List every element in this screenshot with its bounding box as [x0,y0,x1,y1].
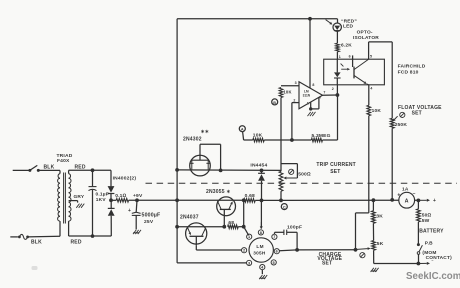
svg-text:+: + [433,198,436,204]
label 5.3MEG [312,133,331,139]
label RED top [75,165,86,171]
pin 3 label [295,81,297,85]
svg-text:311N: 311N [303,94,311,98]
wire pin1 to ground [310,102,312,109]
label 10K (emitter) [372,108,382,114]
svg-text:SET: SET [412,110,422,116]
svg-text:P.B: P.B [425,240,433,246]
svg-text:1KV: 1KV [96,197,107,203]
svg-text:+9V: +9V [133,193,143,199]
wire current limit to LM305 pin1 [244,227,249,236]
ammeter M1 1A [397,187,415,209]
node top rail to comparator supply [308,17,312,21]
ground 5000uF [133,230,141,234]
wire secondary center tap [69,201,78,203]
IC U3 LM305H [249,238,273,262]
U3 pin 8 [258,230,263,235]
op-amp U1 LM311 [299,82,323,109]
svg-text:1A: 1A [402,187,409,193]
node +9V riser [175,198,179,202]
wire V+ riser left [176,19,178,263]
chassis separator dashed line [146,182,458,184]
transistor Q3 2N4037 [186,223,207,246]
wire AC line top [13,169,30,171]
svg-text:2N4302: 2N4302 [183,137,202,143]
label 10K (B) [283,90,291,95]
svg-text:1: 1 [339,55,341,59]
wire 6.2K to opto pin1 [336,52,338,59]
label 3K [376,214,383,220]
ground center tap [76,204,84,208]
label 0.1ohm [115,193,126,199]
resistor 10K (emitter) [367,105,371,115]
svg-text:68: 68 [228,220,234,226]
node 100pF junction [295,248,299,252]
label 500 ohm [298,171,311,177]
wire rail to Q3 [177,226,224,228]
node JFET line left [175,168,179,172]
pin 2 label [293,98,295,102]
svg-text:2: 2 [332,87,334,91]
diode D3 IN4454 [258,170,265,200]
wire diode chain top [110,170,112,186]
transistor Q1 2N4302 (FET current source) [190,144,221,176]
opto light arrow [341,64,350,71]
wire node A line [244,139,253,141]
wire AC line bottom [10,236,18,238]
wire opto LED cathode to comparator output [336,85,338,95]
svg-text:IN4002(2): IN4002(2) [113,176,137,182]
wire pin2 input [292,103,299,140]
wire 0.68 to node C [255,199,281,201]
LED red indicator [326,20,342,32]
resistor 10K (A) [253,138,264,142]
label P.B. [425,240,433,246]
capacitor 0.1uF 1KV [89,170,97,236]
svg-text:SET: SET [322,260,332,266]
svg-text:5K: 5K [377,241,384,247]
svg-text:6.2K: 6.2K [341,42,352,48]
capacitor 100pF [274,230,297,250]
svg-text:SeekIC.com: SeekIC.com [406,271,460,282]
label 2N4302 [183,137,202,143]
node charge wiper junction [354,248,358,252]
wire +9V rail [129,199,244,201]
wiper arrow 5K [357,247,371,250]
svg-text:2N3055 ∗: 2N3055 ∗ [206,189,231,195]
svg-text:GRY: GRY [74,194,85,200]
label RED bottom [71,240,82,246]
label 50ohm 5W [422,213,432,224]
svg-text:F40X: F40X [57,158,70,164]
svg-text:1: 1 [248,235,250,239]
fuse F1 [18,234,60,239]
capacitor 5000uF 25V [128,200,141,229]
svg-text:ISOLATOR: ISOLATOR [353,35,379,41]
wire +9V rail left [111,199,116,201]
svg-text:6: 6 [276,250,278,254]
label FLOAT VOLTAGE SET [398,105,442,117]
wire D2 anode to RED bottom [110,216,112,236]
U3 pin 6 [274,249,279,254]
ground U3 pin4 [259,270,267,279]
switch S1 (line switch) [28,165,60,172]
wire output pin7 [323,94,338,96]
wire 10K down to feedback line [280,98,282,141]
svg-text:B: B [273,101,276,105]
wire 10K to 5.3MEG [264,139,311,141]
node 250K to rail [390,198,394,202]
wire top rail [177,18,337,20]
U3 pin 4 [260,265,265,270]
node B [272,99,278,105]
node Q3 emitter rail [175,225,179,229]
svg-text:FCD 810: FCD 810 [398,69,419,75]
svg-text:LM: LM [256,244,264,249]
resistor 0.1 ohm [116,199,128,203]
label TRIP CURRENT SET [316,162,356,175]
svg-text:LED: LED [343,24,354,30]
wire comparator V+ pin8 [309,19,311,89]
label IN4002(2) [113,176,137,182]
output terminal + [418,198,436,204]
wire output rail right [281,199,399,201]
svg-text:100pF: 100pF [287,225,302,231]
wire JFET source line [177,169,281,172]
node Q2 base [222,225,226,229]
U3 pin 7 [272,234,277,239]
pin 4 label [319,96,321,100]
wire feedback line down to pot [280,140,282,171]
label IN4454 [250,163,267,169]
svg-text:4: 4 [370,87,372,91]
diode D1 IN4002 [108,186,115,193]
trim symbol 250K [400,112,405,117]
resistor 3K [372,200,376,223]
U3 pin 1 [247,234,252,239]
label TRIAD F40X [57,153,73,164]
node A [239,126,245,140]
node rectifier output [109,198,113,202]
node comparator output [336,93,340,97]
svg-text:A: A [241,128,244,132]
opto pin labels [332,54,373,91]
wire opto collector [369,42,393,118]
transformer T1 primary winding [58,170,60,236]
svg-text:2: 2 [293,98,295,102]
svg-text:5: 5 [370,54,372,58]
wire V+ riser to LM305 pin3 [177,262,247,264]
svg-text:3: 3 [248,261,250,265]
svg-text:A: A [405,198,409,204]
label RED LED [341,18,357,29]
opto phototransistor [353,55,369,84]
label OPTO-ISOLATOR [353,30,379,41]
node 3K top [372,198,376,202]
trim symbol 500 ohm [289,169,294,174]
output terminal - [418,259,433,265]
node Q2 emitter [242,198,246,202]
U3 pin 2 [242,248,247,253]
svg-text:0.1Ω: 0.1Ω [115,193,126,199]
node IN4454 anode [260,199,264,203]
node opamp ground [309,107,312,110]
wire pin4 to ground [311,97,319,109]
wire 10K emitter down [356,116,369,250]
U3 pin 5 [271,260,276,265]
svg-text:RED: RED [71,240,82,246]
label ** [201,129,209,135]
svg-text:5.3MEG: 5.3MEG [312,133,331,139]
transformer T1 secondary winding [69,170,71,236]
svg-text:8: 8 [260,231,262,235]
label BATTERY [419,228,444,234]
svg-text:250K: 250K [395,122,408,128]
node 68/current-limit [242,225,246,229]
svg-text:0.68: 0.68 [245,193,255,199]
scan artifact [32,266,38,270]
resistor 0.68 ohm [244,199,256,203]
wire top rail corner to LED [337,19,339,23]
label GRY center tap [74,194,85,200]
svg-text:1: 1 [307,101,309,105]
svg-text:+: + [397,193,400,199]
label 2N4037 [180,215,199,221]
svg-text:10K: 10K [253,132,263,138]
opto-isolator U2 box [324,59,385,85]
svg-text:⁻: ⁻ [431,259,433,264]
label 5K [377,241,384,247]
wire D1 cathode to +9V node [110,194,112,201]
label 2N3055 * [206,189,231,195]
wire 3K to 5K [372,223,374,240]
svg-text:5: 5 [273,261,275,265]
label 6.2K [341,42,352,48]
wire RED bottom to rectifier [69,234,112,238]
svg-text:2N4037: 2N4037 [180,215,199,221]
svg-text:+: + [128,208,131,214]
svg-text:“RED”: “RED” [341,18,357,24]
label FAIRCHILD FCD 810 [398,64,426,76]
svg-text:8: 8 [312,83,314,87]
label MOM CONTACT [422,250,452,261]
svg-text:FAIRCHILD: FAIRCHILD [398,64,426,70]
wire LED to 6.2K [336,31,338,43]
label CHARGE VOLTAGE SET [317,252,342,267]
svg-text:∗∗: ∗∗ [201,129,209,135]
svg-text:3K: 3K [376,214,383,220]
label 0.1uF 1KV [96,192,109,203]
svg-text:10K: 10K [372,108,382,114]
watermark SeekIC.com [406,271,460,282]
transistor Q2 2N3055 [217,197,236,227]
label 10K (A) [253,132,263,138]
node battery negative [417,262,421,266]
node JFET drain [219,169,223,173]
potentiometer 250K [390,116,397,200]
potentiometer 500 ohm [279,164,297,201]
wire opto emitter down [368,85,370,106]
label +9V [133,193,143,199]
trim symbol 5K [360,253,365,258]
svg-text:50Ω: 50Ω [422,213,432,219]
node inverting input feedback [290,138,294,142]
svg-text:305H: 305H [253,251,266,256]
label 5000uF 25V [142,213,161,226]
svg-text:OPTO-: OPTO- [357,30,373,36]
svg-text:5W: 5W [422,218,430,224]
svg-text:SET: SET [330,169,340,175]
U3 pin 3 [247,260,252,265]
resistor 5.3MEG [311,138,322,142]
svg-text:7: 7 [273,235,275,239]
node 5000uF [135,198,139,202]
node cap top [91,168,95,172]
ground 5K bottom [371,268,379,272]
svg-text:7: 7 [323,90,325,94]
svg-text:−: − [413,191,416,197]
label 68 [228,220,234,226]
resistor 50 ohm 5W [417,200,421,222]
svg-text:3: 3 [295,81,297,85]
wire 5.3MEG to output [323,95,338,140]
pin 7 label [323,90,325,94]
svg-text:5000µF: 5000µF [142,213,161,219]
diode D2 IN4002 [108,200,115,216]
wire ammeter out [415,199,419,201]
wire 68 to emitter node [238,200,244,226]
svg-text:6: 6 [349,54,351,58]
svg-text:IN4454: IN4454 [250,163,267,169]
wire IN4454 node down to pin8 [260,200,263,229]
svg-text:BATTERY: BATTERY [419,228,444,234]
pin 8 label [312,83,314,87]
svg-text:TRIP CURRENT: TRIP CURRENT [316,162,356,168]
wire pin6 sense line [280,250,356,251]
resistor 6.2K [336,43,340,52]
wire bottom output [374,263,419,265]
ground op-amp [308,112,316,116]
svg-text:C: C [283,206,286,210]
node 50 ohm top [417,199,421,203]
svg-text:0.1µF: 0.1µF [96,192,109,198]
node IN4454 cathode [260,169,264,173]
wire Q3 base to LM305 pin2 [196,246,241,250]
push button P.B. [417,243,423,263]
svg-text:25V: 25V [144,219,154,225]
node C [279,199,287,210]
wire 50 ohm to switch [417,222,419,244]
label 100pF [287,225,302,231]
svg-text:BLK: BLK [44,164,55,170]
pin 1 label [307,101,309,105]
label BLK top [44,164,55,170]
svg-text:500Ω: 500Ω [298,171,311,177]
opto LED [334,59,341,85]
svg-text:10K: 10K [283,90,291,95]
label BLK bottom [31,240,42,246]
wire RED top to rectifier [69,169,111,171]
svg-text:2: 2 [243,249,245,253]
svg-text:CONTACT): CONTACT) [426,255,452,261]
label 250K [395,122,408,128]
resistor 68 ohm [228,225,239,229]
potentiometer 5K [372,241,376,264]
label 0.68 [245,193,255,199]
transformer T1 core [64,173,66,224]
resistor 10K (B) [279,88,283,98]
svg-text:BLK: BLK [31,240,42,246]
wire pin3 input [281,85,299,87]
